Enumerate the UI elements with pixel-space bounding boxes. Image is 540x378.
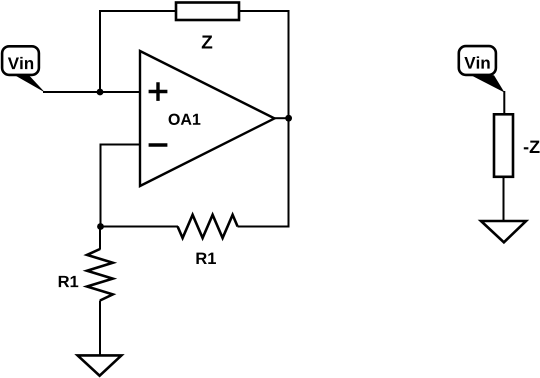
ground left (78, 355, 122, 375)
resistor R1 vertical (87, 249, 113, 301)
wire right rail (288, 10, 290, 228)
impedance -Z (494, 114, 513, 177)
label OA1 (169, 114, 201, 125)
junction node B (97, 223, 104, 230)
flag Vin left (2, 46, 45, 92)
wire Vin to op-amp noninverting input (43, 91, 140, 93)
wire node A up to feedback Z (99, 10, 101, 93)
junction output node (285, 115, 292, 122)
wire node B to resistor R1 (100, 226, 178, 228)
label -Z (524, 141, 540, 153)
op-amp OA1 (140, 51, 275, 186)
wire -Z to ground right (503, 176, 505, 222)
label Z value (202, 35, 213, 48)
impedance Z (176, 3, 239, 21)
wire vertical R1 to ground (99, 301, 101, 357)
wire R1 to right rail (238, 226, 290, 228)
wire top left to Z (99, 10, 176, 12)
wire node B down to vertical R1 (99, 227, 101, 250)
resistor R1 horizontal (178, 215, 238, 238)
ground right (481, 221, 526, 242)
wire inverting input (100, 144, 141, 146)
flag Vin right (459, 46, 505, 92)
label R1 horizontal (196, 253, 216, 264)
wire Vin right down to -Z (503, 91, 505, 115)
wire op-amp output (274, 117, 289, 119)
label R1 vertical (59, 276, 79, 287)
wire Z to right rail (239, 10, 290, 12)
wire inverting input down to node B (100, 144, 102, 227)
junction node A (97, 89, 104, 96)
